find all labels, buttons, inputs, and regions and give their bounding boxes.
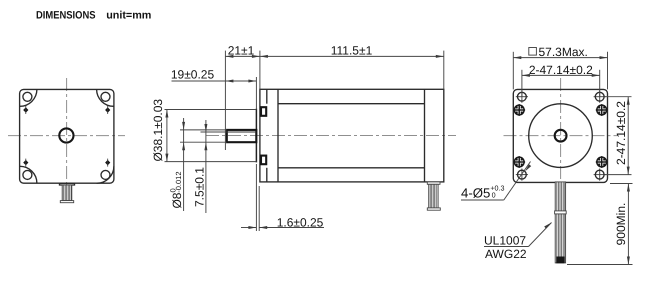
svg-text:2-47.14±0.2: 2-47.14±0.2 [529,63,593,77]
svg-text:111.5±1: 111.5±1 [331,44,373,58]
svg-text:Ø38.1±0.03: Ø38.1±0.03 [151,99,165,162]
svg-text:2-47.14±0.2: 2-47.14±0.2 [614,101,628,165]
svg-text:DIMENSIONS: DIMENSIONS [36,10,96,22]
svg-text:57.3Max.: 57.3Max. [539,45,588,59]
svg-text:AWG22: AWG22 [485,247,527,261]
svg-text:19±0.25: 19±0.25 [171,68,215,82]
svg-text:7.5±0.1: 7.5±0.1 [193,167,207,207]
svg-text:unit=mm: unit=mm [106,10,151,22]
svg-text:900Min.: 900Min. [614,203,628,246]
svg-text:UL1007: UL1007 [484,234,526,248]
